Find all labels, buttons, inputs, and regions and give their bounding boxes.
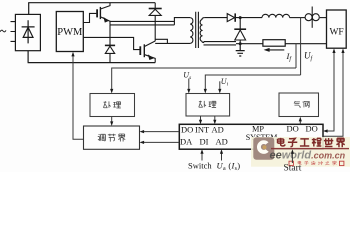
svg-text:Ui: Ui	[221, 77, 229, 88]
block PWM	[56, 12, 83, 52]
wire MP to regulator DO	[140, 141, 180, 144]
current direction arrow	[264, 48, 285, 52]
block processor left	[90, 94, 135, 117]
arrow into processor R	[204, 89, 207, 94]
svg-text:WF: WF	[329, 28, 343, 38]
wire MP DO to gas valve	[299, 117, 302, 125]
transformer T1 primary	[110, 18, 193, 44]
wire rolls to WF	[320, 17, 327, 19]
wire rectifier bottom lead	[27, 51, 29, 63]
svg-text:If: If	[286, 51, 293, 63]
wire processor L to regulator	[110, 117, 113, 127]
svg-text:PWM: PWM	[57, 27, 83, 38]
arrow into processor L	[110, 89, 113, 94]
svg-text:INT: INT	[195, 125, 210, 135]
transformer T1 secondary	[200, 18, 236, 45]
svg-text:DO: DO	[181, 125, 193, 135]
transistor Q1	[97, 3, 110, 25]
svg-text:Ua (Is): Ua (Is)	[217, 160, 241, 172]
block regulator	[84, 126, 140, 149]
diode D4	[227, 13, 235, 21]
watermark slogan	[289, 161, 344, 166]
wire H2 feedback	[205, 75, 300, 92]
wire voltage tap to H2	[300, 18, 302, 75]
svg-text:DO: DO	[306, 124, 318, 134]
block MP system	[179, 124, 323, 150]
watermark background	[251, 137, 350, 167]
ground	[236, 44, 245, 56]
wire H1 feedback	[112, 68, 296, 92]
block gas valve	[279, 93, 319, 117]
watermark rule	[271, 148, 349, 149]
svg-text:eeworld.com.cn: eeworld.com.cn	[270, 150, 346, 162]
svg-text:DI: DI	[200, 137, 209, 147]
svg-text:Us: Us	[183, 71, 191, 82]
diode D2	[105, 25, 115, 63]
svg-text:Start: Start	[284, 164, 302, 172]
wire feed rolls	[305, 7, 319, 28]
svg-text:AD: AD	[212, 125, 224, 135]
wire PWM to Q1 gate	[83, 13, 96, 22]
watermark title	[278, 138, 345, 147]
inductor L1	[262, 14, 290, 17]
wire processor R to MP ports	[199, 116, 217, 124]
wire MP to regulator DA	[140, 130, 180, 133]
node AC input tilde	[0, 30, 6, 32]
block processor right	[186, 94, 230, 117]
wire bottom DC rail	[28, 62, 156, 64]
wire Switch input	[200, 149, 203, 160]
wire bottom output	[236, 43, 327, 45]
wire Ui input	[218, 81, 221, 93]
transistor Q2	[140, 41, 155, 63]
diode D3	[149, 3, 162, 42]
wire secondary top lead	[204, 17, 227, 19]
wire 3-phase input stubs	[11, 22, 16, 42]
wire Ua input	[220, 149, 223, 160]
wire rectifier top lead	[28, 3, 30, 15]
svg-text:DO: DO	[287, 124, 299, 134]
resistor shunt	[263, 40, 285, 47]
svg-text:Uf: Uf	[304, 51, 314, 63]
transformer core	[196, 12, 199, 48]
wire PWM to Q2 gate	[83, 37, 140, 49]
rectifier VC	[15, 14, 40, 50]
wire current tap to H1	[295, 44, 297, 68]
wire MP right port to WF line1	[323, 48, 336, 132]
wire inductor to rolls	[290, 17, 306, 19]
svg-text:AD: AD	[216, 137, 228, 147]
wire D4 to inductor	[235, 17, 262, 19]
wire top DC rail	[28, 2, 155, 4]
diode D5 freewheel	[234, 16, 246, 45]
wire Start input	[291, 149, 294, 163]
block WF wire feeder	[327, 10, 347, 48]
svg-text:Switch: Switch	[188, 160, 212, 170]
svg-text:DA: DA	[180, 137, 193, 147]
wire MP right port to WF line2	[323, 48, 345, 136]
wire regulator to PWM	[71, 52, 83, 139]
wire Us input	[187, 79, 190, 94]
